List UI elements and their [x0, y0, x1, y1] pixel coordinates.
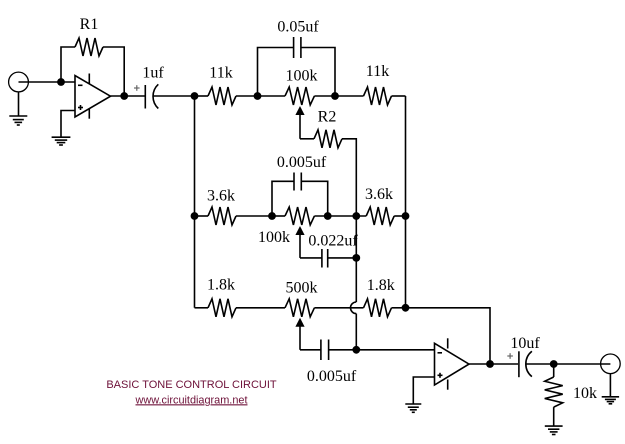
- node P: [550, 360, 558, 368]
- ground (input): [9, 116, 27, 125]
- capacitor C3 0.005uf: [294, 173, 301, 191]
- wire left bus vertical: [194, 96, 196, 308]
- node M: [352, 346, 360, 354]
- node B (op1 output): [120, 92, 128, 100]
- svg-text:100k: 100k: [286, 68, 318, 85]
- wire 0.05uf cap branch right: [301, 48, 335, 97]
- wire middle bus down: [355, 216, 357, 302]
- wire op2 output to C6: [469, 363, 518, 365]
- wire node C to R3: [195, 95, 209, 97]
- svg-text:1.8k: 1.8k: [207, 277, 235, 294]
- resistor R8 1.8k (bottom right): [364, 299, 392, 317]
- svg-text:0.022uf: 0.022uf: [308, 233, 358, 250]
- node J (C4 junction): [352, 254, 360, 262]
- wire RV1 to node E: [314, 95, 335, 97]
- wire RV3 wiper to C5: [300, 349, 321, 351]
- svg-text:R1: R1: [80, 16, 99, 33]
- wire node D to pot RV1: [258, 95, 286, 97]
- svg-text:10k: 10k: [573, 385, 597, 402]
- op-amp U1: [75, 74, 111, 119]
- wire output circle to ground: [609, 374, 611, 397]
- wire feedback to op2 output: [406, 308, 491, 364]
- resistor R2: [314, 130, 342, 148]
- wire node M to op2 inverting input: [356, 349, 434, 351]
- node H: [324, 212, 332, 220]
- node I (middle bus): [352, 212, 360, 220]
- wire RV3 to hop: [314, 307, 363, 309]
- input connector J1: [9, 72, 29, 92]
- wire mid row to right bus: [314, 215, 366, 217]
- wire C1 to node C: [153, 95, 195, 97]
- wire op1 noninverting input: [61, 111, 75, 138]
- resistor R9 10k (load): [545, 364, 563, 426]
- potentiometer RV1 100k (treble): [285, 87, 314, 139]
- capacitor C4 0.022uf: [322, 249, 328, 268]
- wire C6 to node P: [526, 363, 611, 365]
- capacitor C2 0.05uf: [294, 37, 301, 58]
- node E: [331, 92, 339, 100]
- wire R5 to node G: [236, 215, 272, 217]
- svg-text:0.005uf: 0.005uf: [277, 154, 327, 171]
- svg-text:www.circuitdiagram.net: www.circuitdiagram.net: [135, 394, 248, 406]
- svg-text:0.005uf: 0.005uf: [307, 368, 357, 385]
- wire 0.005uf cap branch left: [272, 181, 294, 216]
- wire R3 to node D: [236, 95, 258, 97]
- resistor R7 1.8k (bottom left): [208, 299, 236, 317]
- wire input circle to ground: [18, 92, 20, 116]
- node D: [254, 92, 262, 100]
- ground (R9): [545, 426, 563, 434]
- ground (output): [602, 397, 619, 404]
- ground (op2 +input): [405, 404, 421, 412]
- capacitor C5 0.005uf (bottom): [321, 340, 329, 361]
- node L (right bus bottom): [402, 304, 410, 312]
- node G: [268, 212, 276, 220]
- wire input to op-amp: [19, 81, 76, 83]
- wire R7 to RV3: [236, 307, 285, 309]
- wire RV2 wiper to C4: [300, 257, 322, 259]
- wire RV2 row to right: [272, 215, 285, 217]
- wire R2 to middle bus: [342, 139, 356, 216]
- wire right bus vertical: [405, 96, 407, 308]
- svg-text:11k: 11k: [366, 63, 389, 80]
- capacitor C1 1uf: [134, 84, 158, 108]
- svg-text:1.8k: 1.8k: [367, 277, 395, 294]
- resistor R1: [75, 38, 103, 56]
- svg-text:1uf: 1uf: [142, 65, 164, 82]
- svg-text:3.6k: 3.6k: [365, 186, 393, 203]
- op-amp U2: [435, 338, 470, 389]
- wire C5 to node M: [329, 349, 357, 351]
- wire R6 to right bus: [394, 215, 405, 217]
- svg-text:11k: 11k: [209, 65, 232, 82]
- node A (op1 inverting input): [57, 78, 65, 86]
- ground (op1 +input): [52, 137, 71, 145]
- svg-text:BASIC TONE CONTROL CIRCUIT: BASIC TONE CONTROL CIRCUIT: [106, 379, 277, 391]
- potentiometer RV2 100k (midrange): [285, 207, 314, 258]
- svg-text:10uf: 10uf: [510, 335, 540, 352]
- wire feedback left vertical: [61, 47, 75, 82]
- node F (middle left): [191, 212, 199, 220]
- wire op2 noninverting input: [413, 377, 434, 404]
- wire node E to R4: [335, 95, 364, 97]
- wire wiper to R2: [300, 138, 314, 140]
- resistor R6 3.6k (mid right): [366, 207, 394, 225]
- wire middle bus below hop: [355, 314, 357, 350]
- output connector J2: [601, 354, 621, 374]
- wire hop (vertical over bottom row): [350, 302, 356, 314]
- svg-text:R2: R2: [318, 109, 337, 126]
- node N (op2 output): [486, 360, 494, 368]
- node C: [191, 92, 199, 100]
- resistor R4 11k (top right): [364, 87, 392, 105]
- wire op1 output to C1: [111, 95, 146, 97]
- wire R4 to right bus: [392, 95, 406, 97]
- wire 0.005uf cap branch right: [301, 181, 327, 216]
- wire 0.05uf cap branch left: [258, 48, 294, 97]
- svg-text:100k: 100k: [258, 229, 290, 246]
- resistor R3 11k (top left): [208, 87, 236, 105]
- svg-text:3.6k: 3.6k: [207, 188, 235, 205]
- resistor R5 3.6k (mid left): [208, 207, 236, 225]
- potentiometer RV3 500k (bass): [285, 299, 314, 350]
- wire node F to R5: [195, 215, 209, 217]
- svg-text:500k: 500k: [286, 280, 318, 297]
- wire R8 to node L: [392, 307, 406, 309]
- capacitor C6 10uf: [507, 351, 532, 377]
- wire C4 to middle bus: [328, 257, 357, 259]
- node K (right bus middle): [402, 212, 410, 220]
- svg-text:0.05uf: 0.05uf: [277, 19, 319, 36]
- wire bottom row left: [195, 307, 209, 309]
- wire feedback right: [103, 47, 124, 96]
